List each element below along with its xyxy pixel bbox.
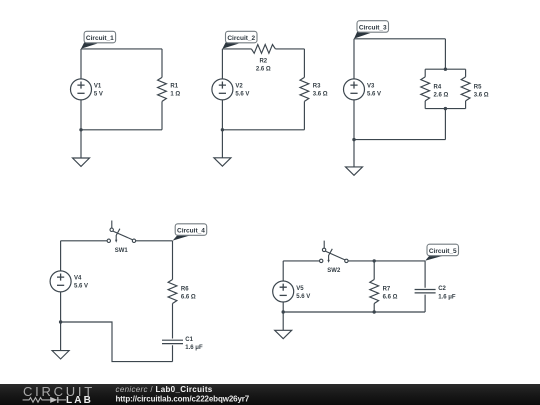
- label C2 value: [438, 286, 456, 301]
- svg-text:6.6 Ω: 6.6 Ω: [383, 294, 398, 300]
- svg-text:5.6 V: 5.6 V: [367, 92, 381, 98]
- ground circuit4: [52, 351, 69, 359]
- resistor R2 (horizontal): [251, 45, 275, 54]
- junction node circuit3 top: [444, 68, 447, 71]
- resistor R1: [158, 77, 167, 101]
- ground circuit5: [275, 330, 292, 338]
- junction node circuit5 V5 bottom: [282, 310, 285, 313]
- wire circuit5 bottom: [283, 311, 425, 313]
- wire circuit2 right rail: [303, 49, 305, 130]
- junction node circuit3 bottom: [444, 107, 447, 110]
- svg-text:R3: R3: [313, 84, 321, 90]
- svg-text:R2: R2: [259, 58, 267, 64]
- svg-text:3.6 Ω: 3.6 Ω: [313, 92, 328, 98]
- wire circuit1 right rail: [161, 49, 163, 130]
- svg-text:3.6 Ω: 3.6 Ω: [474, 93, 489, 99]
- wire circuit3 parallel bottom bar: [425, 108, 465, 110]
- label V1 value: [94, 84, 103, 98]
- wire circuit4 left rail: [60, 241, 62, 351]
- svg-text:Circuit_2: Circuit_2: [227, 35, 255, 42]
- junction node circuit5 switch-R7: [373, 259, 376, 262]
- label C1 value: [185, 337, 203, 351]
- svg-text:Circuit_3: Circuit_3: [359, 25, 387, 32]
- label R4 value: [434, 85, 449, 99]
- wire circuit5 C2 rail: [424, 261, 426, 312]
- svg-text:R1: R1: [170, 84, 178, 90]
- svg-text:V4: V4: [74, 276, 82, 282]
- label R7 value: [383, 286, 398, 300]
- wire circuit3 parallel top bar: [425, 68, 465, 70]
- wire circuit5 left rail: [282, 261, 284, 330]
- callout Circuit_5: [425, 244, 458, 261]
- label SW2: [327, 268, 341, 274]
- svg-text:SW2: SW2: [327, 268, 341, 274]
- wire circuit2 bottom: [222, 129, 304, 131]
- svg-text:5.6 V: 5.6 V: [296, 294, 310, 300]
- resistor R4: [421, 77, 430, 101]
- resistor R3: [300, 77, 309, 101]
- svg-text:SW1: SW1: [115, 248, 129, 254]
- junction node circuit5 R7 bottom: [373, 310, 376, 313]
- voltage source V1: [71, 79, 92, 100]
- wire circuit4 bottom jog: [61, 322, 173, 362]
- callout Circuit_1: [81, 31, 116, 48]
- wire circuit4 top left: [61, 240, 108, 242]
- junction node circuit1: [79, 128, 82, 131]
- svg-text:2.6 Ω: 2.6 Ω: [434, 93, 449, 99]
- footer bar: [0, 384, 540, 405]
- capacitor C1: [162, 340, 183, 343]
- svg-text:V2: V2: [235, 84, 243, 90]
- voltage source V4: [50, 271, 71, 292]
- wire circuit3 top: [354, 38, 445, 40]
- label SW1: [115, 248, 129, 254]
- junction node circuit3 ground: [352, 138, 355, 141]
- svg-text:Circuit_5: Circuit_5: [429, 248, 457, 255]
- svg-text:5 V: 5 V: [94, 92, 103, 98]
- ground circuit1: [73, 158, 90, 166]
- svg-text:Circuit_1: Circuit_1: [86, 35, 114, 42]
- svg-text:http://circuitlab.com/c222ebqw: http://circuitlab.com/c222ebqw26yr7: [116, 395, 250, 404]
- svg-text:C2: C2: [438, 286, 446, 292]
- svg-text:R4: R4: [434, 85, 442, 91]
- voltage source V5: [273, 281, 294, 302]
- wire circuit5 top right: [348, 260, 425, 262]
- wire circuit4 right rail: [172, 241, 174, 362]
- wire circuit1 top: [81, 48, 162, 50]
- svg-text:R7: R7: [383, 286, 391, 292]
- wire circuit2 top: [222, 48, 304, 50]
- ground circuit2: [214, 158, 231, 166]
- callout Circuit_3: [354, 21, 389, 39]
- wire circuit4 top right: [136, 240, 173, 242]
- wire circuit1 bottom: [81, 129, 162, 131]
- resistor R7: [370, 280, 379, 304]
- callout Circuit_4: [173, 224, 207, 241]
- callout Circuit_2: [222, 31, 257, 48]
- label R5 value: [474, 85, 489, 99]
- svg-text:C1: C1: [185, 337, 193, 343]
- junction node circuit2: [221, 128, 224, 131]
- wire circuit3 R5 leads: [465, 69, 467, 108]
- label V4 value: [74, 276, 88, 290]
- voltage source V2: [212, 79, 233, 100]
- label R3 value: [313, 84, 328, 98]
- wire circuit3 center drop: [444, 109, 446, 140]
- svg-text:6.6 Ω: 6.6 Ω: [181, 294, 196, 300]
- svg-text:LAB: LAB: [66, 395, 93, 405]
- svg-text:R6: R6: [181, 286, 189, 292]
- footer logo waveform and diode: [23, 397, 66, 403]
- svg-text:5.6 V: 5.6 V: [235, 92, 249, 98]
- wire circuit2 left rail: [221, 49, 223, 158]
- switch SW1: [107, 221, 136, 243]
- label R2 value: [256, 58, 271, 72]
- voltage source V3: [344, 79, 365, 100]
- svg-text:5.6 V: 5.6 V: [74, 284, 88, 290]
- junction node circuit4: [59, 320, 62, 323]
- svg-text:Circuit_4: Circuit_4: [177, 228, 205, 235]
- wire circuit1 left rail: [80, 49, 82, 158]
- wire circuit3 bottom: [354, 139, 445, 141]
- svg-text:2.6 Ω: 2.6 Ω: [256, 66, 271, 72]
- wire circuit5 R7 rail: [373, 261, 375, 312]
- svg-text:1 Ω: 1 Ω: [170, 92, 180, 98]
- capacitor C2: [415, 290, 436, 293]
- svg-text:cenicerc / Lab0_Circuits: cenicerc / Lab0_Circuits: [116, 385, 213, 394]
- wire circuit3 R4 leads: [424, 69, 426, 108]
- svg-text:1.6 μF: 1.6 μF: [185, 345, 203, 351]
- label V3 value: [367, 84, 381, 98]
- label R6 value: [181, 286, 196, 300]
- svg-text:1.6 μF: 1.6 μF: [438, 295, 456, 301]
- wire circuit3 left rail: [353, 39, 355, 167]
- svg-text:V1: V1: [94, 84, 102, 90]
- svg-text:R5: R5: [474, 85, 482, 91]
- label V2 value: [235, 84, 249, 98]
- svg-text:V5: V5: [296, 286, 304, 292]
- ground circuit3: [346, 167, 363, 175]
- resistor R5: [461, 77, 470, 101]
- wire circuit3 right stub: [444, 39, 446, 69]
- label R1 value: [170, 84, 180, 98]
- resistor R6: [168, 280, 177, 304]
- label V5 value: [296, 286, 310, 300]
- switch SW2: [320, 241, 349, 263]
- svg-text:V3: V3: [367, 84, 375, 90]
- wire circuit5 top left: [283, 260, 319, 262]
